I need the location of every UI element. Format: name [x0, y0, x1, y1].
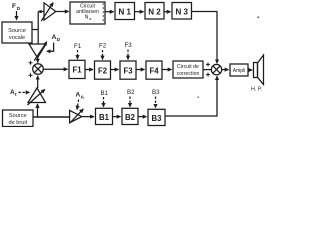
svg-text:D: D: [57, 37, 61, 43]
wire F3 to F4: [136, 69, 145, 71]
amplifier A_t (upward): [28, 88, 46, 103]
box F4: [146, 61, 162, 79]
wire left mixer to F1: [43, 68, 67, 70]
svg-text:Source: Source: [8, 28, 26, 34]
wire F2 to F3: [111, 69, 119, 71]
wire Source vocale output to vertical branch: [32, 29, 38, 31]
svg-text:F2: F2: [99, 43, 107, 50]
node A_D label: [52, 34, 61, 43]
wire N2 to N3: [164, 11, 171, 13]
dashed pointer from A_t to amp: [19, 91, 30, 93]
wire vertical branch (up to top amp, down to A_D amp): [37, 12, 39, 45]
node A_A label: [76, 92, 85, 101]
dashed arrow F2 label to box: [102, 50, 104, 60]
wire A_D amp into left mixer: [37, 58, 39, 63]
svg-text:B1: B1: [99, 113, 110, 122]
variable-gain arrow of A_t amp: [28, 89, 45, 105]
svg-text:F3: F3: [125, 42, 133, 49]
box N2: [145, 3, 164, 20]
svg-text:H. P.: H. P.: [251, 87, 262, 93]
box B3: [148, 109, 165, 125]
amplifier A_A: [70, 110, 82, 122]
node F_D label: [12, 3, 21, 12]
plus sign upper: [29, 61, 33, 65]
svg-text:F2: F2: [98, 66, 108, 75]
svg-text:Circuit de: Circuit de: [177, 64, 199, 70]
svg-text:F1: F1: [74, 43, 82, 50]
svg-text:Source: Source: [9, 113, 27, 119]
amplifier (top, anti-larsen path): [44, 3, 56, 20]
svg-text:N 1: N 1: [118, 7, 131, 16]
wire F1 to F2: [85, 69, 93, 71]
wire A_A amp to B1: [82, 116, 94, 118]
wire into top amp: [38, 11, 44, 13]
plus sign lower right mixer: [206, 73, 210, 77]
svg-text:F4: F4: [149, 66, 159, 75]
wire noise bus into A_t amp: [37, 104, 39, 117]
svg-text:a: a: [89, 16, 92, 21]
svg-text:N 3: N 3: [175, 7, 188, 16]
dashed pointer from A_A to amp: [77, 100, 79, 110]
speck: [198, 97, 199, 98]
box Ampli: [230, 64, 248, 76]
svg-text:A: A: [81, 95, 85, 101]
box Source vocale: [2, 22, 32, 43]
wire Ampli to loudspeaker: [248, 69, 252, 71]
wire A_t amp into left mixer (from below): [37, 76, 39, 88]
box F1: [69, 60, 85, 78]
wire top amp to antilarsen box: [56, 11, 69, 13]
box N3: [172, 3, 192, 20]
box B2: [122, 108, 138, 124]
variable-gain arrow of A_D amp: [34, 42, 47, 61]
svg-text:N: N: [85, 15, 89, 21]
wire F_D arrow into Source vocale: [16, 11, 18, 20]
variable-gain arrow of top amp: [41, 3, 53, 21]
wire N3 to right mixer (over and down): [192, 12, 218, 64]
svg-text:F1: F1: [72, 66, 82, 75]
box Circuit antilarsen Na: [70, 2, 105, 24]
svg-text:B2: B2: [127, 89, 135, 96]
junction dot: [39, 10, 42, 13]
wire F4 to correction box: [162, 69, 172, 71]
dashed arrow F3 label to box: [127, 50, 129, 60]
dashed pointer from A_D to amp: [47, 43, 54, 52]
svg-text:B3: B3: [152, 89, 160, 96]
svg-text:F: F: [12, 3, 16, 10]
wire B2 to B3: [138, 116, 147, 118]
dashed arrow B3 label to box: [155, 97, 157, 108]
wire B3 to right mixer (over and up): [165, 76, 217, 116]
svg-text:Ampli: Ampli: [233, 68, 246, 74]
box B1: [96, 108, 113, 124]
node A_t label: [10, 89, 17, 98]
svg-text:vocale: vocale: [9, 35, 25, 41]
plus sign upper right mixer: [206, 62, 210, 66]
box F3: [120, 61, 136, 79]
svg-text:B3: B3: [152, 114, 163, 123]
variable-gain arrow of A_A amp: [70, 109, 83, 123]
svg-text:de bruit: de bruit: [8, 120, 27, 126]
wire Source de bruit to A_A amp: [33, 116, 70, 118]
box F2: [95, 61, 111, 79]
svg-text:B2: B2: [125, 113, 136, 122]
wire correction box to right mixer: [203, 69, 211, 71]
svg-text:B1: B1: [101, 90, 109, 97]
speck: [258, 17, 260, 19]
amplifier A_D (downward): [29, 44, 46, 58]
box Circuit de correction: [173, 61, 203, 78]
box N1: [115, 3, 135, 20]
plus sign lower: [29, 73, 33, 77]
dashed arrow F1 label to box: [77, 50, 79, 59]
antilarsen box inner scan line: [102, 3, 104, 23]
svg-text:t: t: [15, 92, 17, 98]
svg-text:N 2: N 2: [148, 7, 161, 16]
dashed arrow B1 label to box: [103, 97, 105, 107]
svg-text:D: D: [17, 6, 21, 12]
wire antilarsen box to N1: [105, 11, 114, 13]
summing mixer (left): [33, 64, 44, 75]
wire N1 to N2: [135, 11, 144, 13]
wire B1 to B2: [113, 116, 121, 118]
svg-text:correction: correction: [177, 71, 200, 77]
box Source de bruit: [3, 110, 34, 127]
dashed arrow B2 label to box: [129, 97, 131, 107]
summing mixer (right): [211, 64, 221, 74]
wire right mixer to Ampli: [222, 69, 229, 71]
svg-text:F3: F3: [123, 66, 133, 75]
loudspeaker H.P.: [254, 63, 258, 78]
